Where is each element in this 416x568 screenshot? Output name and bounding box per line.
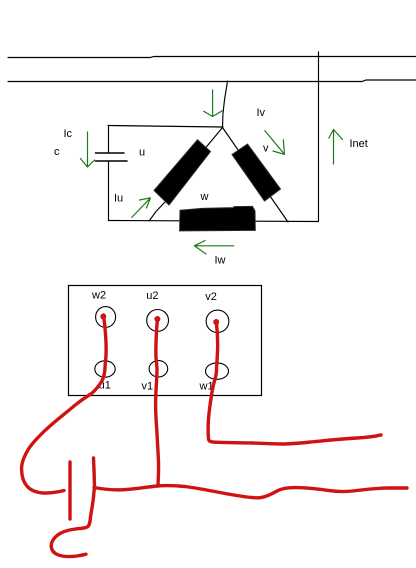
svg-text:v: v	[263, 143, 269, 155]
svg-text:u2: u2	[146, 290, 158, 302]
svg-text:v1: v1	[142, 381, 154, 393]
svg-text:u: u	[139, 147, 145, 159]
svg-text:v2: v2	[205, 291, 217, 303]
svg-text:Iw: Iw	[215, 255, 226, 267]
svg-text:c: c	[54, 146, 60, 158]
svg-text:Inet: Inet	[350, 138, 368, 150]
svg-text:w: w	[200, 191, 209, 203]
svg-text:Ic: Ic	[64, 128, 73, 140]
svg-text:w2: w2	[91, 290, 106, 302]
svg-text:Iv: Iv	[257, 107, 266, 119]
svg-text:Iu: Iu	[114, 193, 123, 205]
